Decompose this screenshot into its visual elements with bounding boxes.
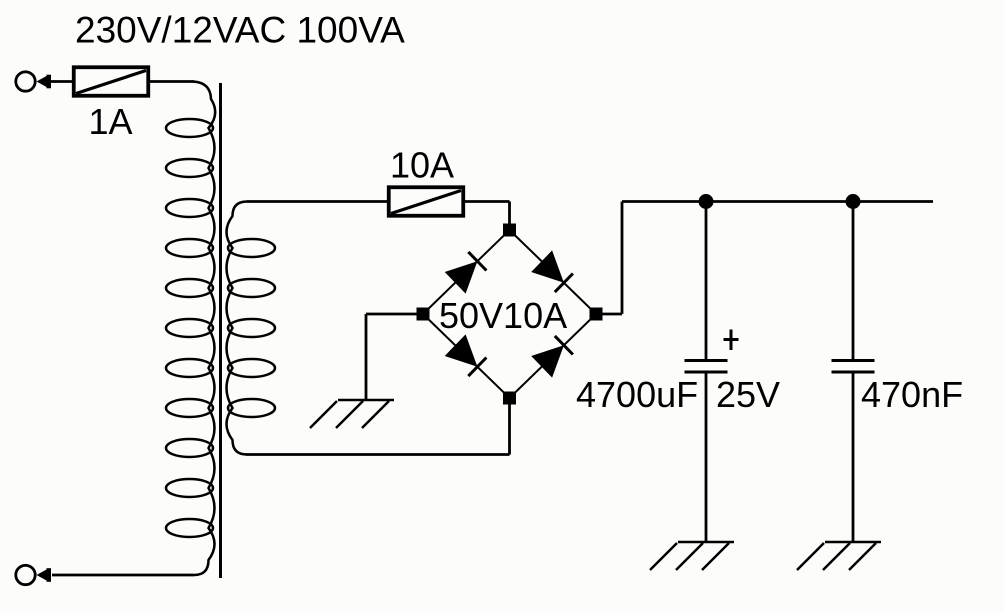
svg-text:50V10A: 50V10A bbox=[439, 295, 567, 336]
svg-text:10A: 10A bbox=[390, 145, 454, 186]
svg-text:25V: 25V bbox=[716, 374, 780, 415]
svg-text:230V/12VAC 100VA: 230V/12VAC 100VA bbox=[75, 10, 405, 51]
svg-text:4700uF: 4700uF bbox=[576, 374, 698, 415]
svg-text:470nF: 470nF bbox=[861, 374, 963, 415]
svg-text:1A: 1A bbox=[89, 101, 133, 142]
